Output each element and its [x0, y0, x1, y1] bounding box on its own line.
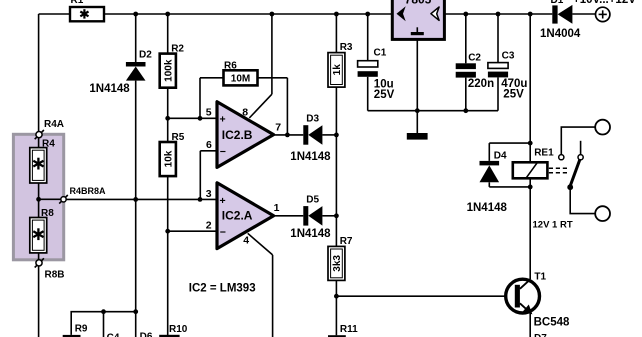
op-amp IC2.B: [217, 102, 274, 168]
svg-text:R10: R10: [169, 324, 188, 335]
svg-text:R8B: R8B: [45, 270, 65, 281]
junction top rail at D2: [133, 12, 138, 17]
svg-text:100k: 100k: [163, 59, 174, 82]
svg-text:R9: R9: [75, 324, 88, 335]
junction node R4B at pin6 line: [198, 197, 203, 202]
wire ground rail: [368, 110, 498, 112]
svg-text:10M: 10M: [231, 73, 250, 84]
wire 7805 ground down: [416, 39, 418, 110]
junction ground rail at 7805: [415, 108, 420, 113]
wire R6 to output column: [258, 77, 288, 79]
wire D2 down to bottom net: [135, 81, 137, 312]
wire pin8 up to top rail: [271, 14, 273, 94]
wire feedback to R6: [200, 77, 224, 79]
junction top rail at relay line: [528, 12, 533, 17]
transistor T1 BC548: [506, 272, 570, 329]
svg-text:1N4004: 1N4004: [540, 28, 581, 40]
svg-text:R4: R4: [42, 139, 55, 150]
wire top rail to R3: [335, 14, 337, 53]
junction top rail at C1: [365, 12, 370, 17]
switch lever: [570, 160, 580, 187]
svg-text:1k: 1k: [332, 64, 343, 76]
svg-text:1N4148: 1N4148: [290, 151, 331, 163]
junction R4/R8 tap: [36, 197, 41, 202]
wire left contact up and to terminal: [561, 127, 595, 154]
junction bottom net at D6: [133, 309, 138, 314]
terminal R4A: [35, 119, 64, 139]
svg-text:RE1: RE1: [534, 148, 554, 159]
diode D2 1N4148: [89, 50, 152, 95]
svg-text:4: 4: [243, 235, 249, 247]
voltage regulator IC1 7805: [392, 0, 444, 39]
svg-text:D3: D3: [306, 114, 319, 125]
svg-text:D5: D5: [306, 195, 319, 206]
svg-text:R5: R5: [172, 132, 185, 143]
terminal switch bottom: [595, 206, 610, 221]
junction top rail at R3: [334, 12, 339, 17]
svg-text:BC548: BC548: [534, 317, 570, 329]
wire tap to R4BR8A terminal: [39, 198, 61, 200]
svg-text:C4: C4: [107, 333, 120, 337]
wire node5 to R5: [167, 118, 169, 142]
svg-text:C1: C1: [374, 48, 387, 59]
svg-text:1: 1: [274, 202, 280, 214]
svg-text:25V: 25V: [503, 89, 524, 101]
resistor R10 top edge: [159, 324, 188, 337]
wire node R4B to IC2.A pin3: [66, 198, 217, 200]
wire right contact stub: [580, 141, 582, 155]
svg-text:6: 6: [206, 139, 212, 151]
wire top rail to R2: [167, 14, 169, 54]
resistor R1: [70, 0, 104, 21]
resistor R6: [224, 60, 258, 85]
svg-text:+: +: [220, 195, 226, 207]
junction node R4B at x136 line: [133, 197, 138, 202]
svg-text:5: 5: [206, 107, 212, 119]
svg-text:220n: 220n: [468, 78, 494, 90]
resistor R7: [328, 236, 353, 281]
svg-text:R2: R2: [171, 44, 184, 55]
switch pivot: [567, 184, 573, 190]
diode D3 1N4148: [290, 114, 331, 163]
diode D6 stub: [136, 312, 153, 337]
svg-text:T1: T1: [534, 272, 546, 283]
wire R5 down to R10: [167, 176, 169, 335]
junction D4 bottom: [528, 185, 533, 190]
terminal switch top: [595, 120, 610, 135]
wire top rail right segment: [444, 13, 552, 15]
wire top rail middle segment: [104, 13, 392, 15]
junction top rail at C2: [463, 12, 468, 17]
svg-text:1N4148: 1N4148: [467, 202, 508, 214]
wire feedback up from node5: [199, 78, 201, 119]
wire IC2.B pin6 stub: [200, 150, 217, 152]
terminal R8B: [35, 258, 65, 280]
relay mechanical link dashes: [549, 168, 568, 173]
svg-text:1N4148: 1N4148: [290, 228, 331, 240]
wire bottom-left net horizontal: [71, 312, 136, 335]
wire relay branch down: [529, 14, 531, 162]
svg-text:D2: D2: [139, 50, 152, 61]
svg-text:12V 1 RT: 12V 1 RT: [533, 220, 573, 231]
resistor R4: [30, 139, 55, 183]
junction ground rail at C2: [463, 108, 468, 113]
svg-text:R1: R1: [71, 0, 84, 6]
svg-text:R4A: R4A: [44, 119, 64, 130]
junction pin2 node: [165, 229, 170, 234]
svg-text:D4: D4: [494, 151, 507, 162]
wire down to output node B: [286, 78, 288, 135]
svg-text:+: +: [220, 114, 226, 126]
wire R4 to junction: [38, 183, 40, 199]
junction relay top / D4: [528, 141, 533, 146]
wire IC2.B output to D3: [274, 134, 304, 136]
svg-text:2: 2: [206, 220, 212, 232]
junction output B at R6 feedback: [285, 133, 290, 138]
resistor R9 top edge: [63, 324, 88, 337]
svg-text:C2: C2: [468, 52, 481, 63]
wire junction to R8: [38, 199, 40, 217]
junction base node: [334, 294, 339, 299]
wire pin2 node to IC2.A pin2: [168, 230, 217, 232]
svg-text:1N4148: 1N4148: [89, 83, 130, 95]
wire top rail to D2: [135, 14, 137, 62]
junction column at D5: [334, 213, 339, 218]
junction column at D3: [334, 133, 339, 138]
capacitor C1 10u: [358, 14, 395, 111]
svg-text:R8: R8: [41, 208, 54, 219]
wire pivot to terminal: [570, 187, 595, 213]
junction top rail at pin8 line: [270, 12, 275, 17]
svg-text:−: −: [220, 146, 226, 158]
svg-text:10k: 10k: [163, 150, 174, 167]
svg-text:7: 7: [275, 122, 281, 134]
wire pin4 diagonal: [248, 233, 273, 255]
sensor block R4/R8: [13, 134, 63, 259]
op-amp IC2.A: [217, 183, 274, 249]
diode D1 1N4004: [540, 0, 581, 40]
wire pin8 diagonal: [249, 94, 272, 118]
svg-text:IC2 = LM393: IC2 = LM393: [189, 283, 256, 295]
resistor R8: [30, 208, 54, 253]
svg-text:3: 3: [206, 188, 212, 200]
terminal R4BR8A: [59, 186, 106, 204]
relay coil RE1: [513, 148, 554, 179]
resistor R2: [160, 44, 185, 88]
switch contact left: [559, 155, 564, 160]
resistor R5: [160, 132, 185, 176]
svg-text:R6: R6: [224, 60, 237, 71]
wire R7 down to R11: [335, 280, 337, 335]
svg-text:R3: R3: [340, 42, 353, 53]
capacitor C4 stub: [104, 312, 120, 337]
junction top rail at R2: [165, 12, 170, 17]
junction node5 at R2/R5: [165, 116, 170, 121]
svg-text:C3: C3: [502, 50, 515, 61]
capacitor C3 470u: [488, 14, 528, 111]
svg-text:R7: R7: [340, 236, 353, 247]
svg-text:25V: 25V: [374, 89, 395, 101]
svg-text:R11: R11: [340, 324, 358, 335]
junction bottom net at C4: [101, 309, 106, 314]
svg-text:D6: D6: [140, 331, 153, 337]
wire D5 to column: [322, 215, 336, 217]
wire R2 to node5: [167, 88, 169, 119]
wire relay coil to collector: [529, 178, 531, 279]
wire R8 to R8B: [38, 253, 40, 260]
terminal plus supply: [596, 7, 610, 21]
svg-text:−: −: [220, 226, 226, 238]
svg-text:+10V...+12V: +10V...+12V: [573, 0, 636, 6]
wire R4A to R4: [38, 138, 40, 148]
wire pin6 down to node R4B: [199, 151, 201, 200]
junction node5 at R6 feedback: [198, 116, 203, 121]
switch contact right: [578, 155, 583, 160]
wire pin4 down to bottom edge: [272, 255, 274, 337]
wire left branch down to R4A: [38, 14, 40, 132]
svg-text:R4BR8A: R4BR8A: [70, 186, 107, 196]
wire top rail left segment: [39, 13, 70, 15]
svg-text:D7: D7: [534, 333, 547, 337]
diode D5 1N4148: [290, 195, 331, 240]
diode D4 1N4148: [467, 143, 531, 214]
svg-text:IC2.A: IC2.A: [222, 209, 253, 223]
svg-text:7805: 7805: [405, 0, 432, 6]
ground symbol: [407, 111, 428, 140]
svg-text:8: 8: [242, 106, 248, 118]
wire D3 to column: [322, 134, 336, 136]
wire emitter down to D7: [529, 313, 531, 337]
wire R3 down to R7: [335, 87, 337, 246]
wire node5 to IC2.B pin5: [168, 117, 217, 119]
capacitor C2 220n: [456, 14, 494, 111]
svg-text:3k3: 3k3: [332, 255, 343, 272]
svg-text:IC2.B: IC2.B: [222, 128, 253, 142]
junction top rail at C3: [496, 12, 501, 17]
resistor R11 top edge: [328, 324, 358, 337]
wire base from R7 node to T1: [336, 295, 515, 297]
wire D1 to plus terminal: [572, 13, 595, 15]
resistor R3: [328, 42, 353, 87]
svg-text:D1: D1: [551, 0, 564, 6]
wire R8B to bottom edge: [38, 266, 40, 337]
wire IC2.A output to D5: [274, 215, 304, 217]
